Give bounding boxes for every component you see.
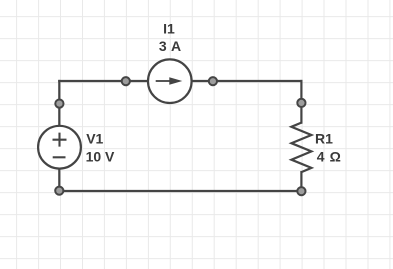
wire left (V1 branch) [58, 81, 60, 191]
svg-text:4 Ω: 4 Ω [317, 148, 341, 164]
wire top (node between V1+, I1, R1 top loop) [59, 80, 301, 82]
node dot V1 bottom [55, 187, 63, 195]
resistor R1 [291, 123, 311, 173]
svg-text:3 A: 3 A [159, 38, 181, 54]
svg-text:I1: I1 [163, 20, 175, 36]
node dot R1 bottom [297, 187, 305, 195]
wire right lower (R1 bottom lead) [300, 172, 302, 191]
current source I1 [148, 59, 192, 103]
wire bottom (ground return net) [59, 190, 301, 192]
voltage source V1 [38, 126, 81, 169]
svg-text:10 V: 10 V [86, 148, 115, 164]
node dot R1 top [297, 99, 305, 107]
node dot I1 left [122, 77, 130, 85]
wire right upper (R1 top lead) [300, 81, 302, 123]
node dot I1 right [209, 77, 217, 85]
svg-text:V1: V1 [86, 131, 103, 147]
svg-text:R1: R1 [315, 131, 333, 147]
node dot V1 top [55, 100, 63, 108]
